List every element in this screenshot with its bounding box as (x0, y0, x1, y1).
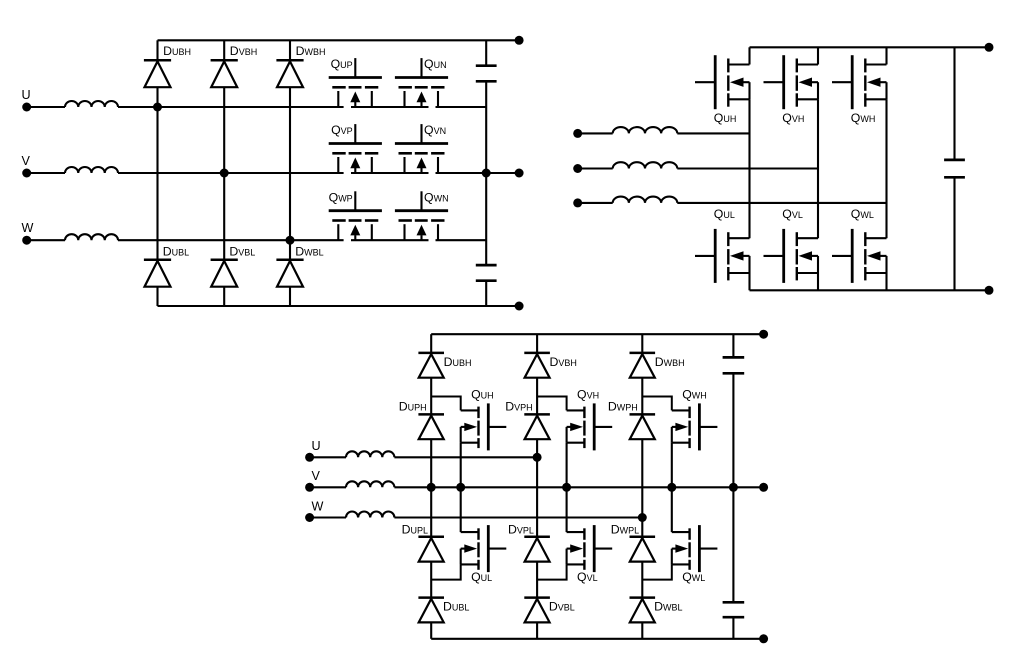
transistor Q_VL (764, 229, 819, 283)
svg-text:DVBH: DVBH (550, 355, 577, 369)
wire Q_WL source branch (block 3) (642, 564, 672, 579)
midpoint terminal dot (block 1) (515, 169, 524, 178)
input terminal W (block 3) (305, 499, 323, 522)
svg-text:DWBL: DWBL (654, 599, 682, 613)
diode leg V: wire top bus to D_VBH (block 1) (223, 40, 225, 60)
wire D_VPH anode to mid row and D_VPL (block 3) (536, 439, 538, 537)
transistor Q_WH (block 3) (672, 403, 718, 450)
wire phase V inductor to half-bridge (block 2) (677, 167, 818, 169)
diode D_VBH (block 3) (524, 353, 550, 378)
svg-text:DVPL: DVPL (508, 523, 534, 537)
svg-text:DVBH: DVBH (230, 44, 257, 58)
svg-text:DUBL: DUBL (163, 244, 189, 258)
negative terminal dot (block 3) (759, 634, 768, 643)
wire top bus to D_WBH (block 3) (641, 334, 643, 353)
transistor Q_WL (block 3) (672, 525, 718, 572)
junction U-phase / diode leg (block 1) (153, 103, 162, 112)
diode leg W: wire top bus to D_WBH (block 1) (289, 40, 291, 60)
wire phase W inductor to half-bridge (block 2) (677, 202, 886, 204)
input terminal dot phase W (block 2) (573, 198, 582, 207)
positive terminal dot (block 3) (759, 330, 768, 339)
wire D_VBH anode down through phase node to D_VBL (block 1) (223, 87, 225, 260)
input terminal W (block 1) (22, 221, 34, 245)
wire W terminal to inductor (block 3) (310, 516, 346, 518)
capacitor C2 (block 1) (476, 265, 497, 281)
transistor Q_WL (832, 229, 887, 283)
wire D_WPL cathode leg to D_WBL (block 3) (641, 561, 643, 597)
wire Q_VL source branch (block 3) (537, 564, 567, 579)
diode D_VPH (block 3) (524, 414, 550, 439)
diode D_UPL (block 3) (418, 537, 444, 562)
input terminal dot phase V (block 2) (573, 164, 582, 173)
svg-text:DWPL: DWPL (611, 523, 639, 537)
svg-text:DUPH: DUPH (399, 399, 427, 413)
inductor LV (block 2) (613, 162, 678, 168)
inductor LW (block 3) (346, 511, 394, 517)
svg-text:DWBH: DWBH (655, 355, 685, 369)
svg-text:DWBH: DWBH (296, 44, 326, 58)
diode D_WBL (block 3) (630, 598, 656, 623)
wire Q_WN drain to capacitor bus (block 1) (436, 239, 487, 241)
wire terminal to inductor phase U (block 2) (578, 132, 613, 134)
svg-text:QVH: QVH (577, 387, 599, 401)
wire top bus to Q_WH drain (block 2) (885, 47, 887, 64)
wire D_WBL anode to bottom bus (block 3) (641, 622, 643, 639)
svg-text:DVPH: DVPH (505, 399, 532, 413)
transistor Q_VL (block 3) (567, 525, 613, 572)
wire Q_UL source branch (block 3) (431, 564, 461, 579)
wire mid row to Q_WL drain (block 3) (671, 487, 673, 532)
block 1: three-phase buck-type rectifier (top-left) (22, 88, 344, 245)
svg-text:V: V (22, 154, 31, 168)
transistor Q_VP (329, 124, 382, 173)
wire Q_VH source to Q_VL drain (block 2) (817, 99, 819, 238)
positive terminal dot (block 1) (515, 36, 524, 45)
diode D_WBL (276, 260, 303, 287)
wire Q_UP source to Q_UN source (block 1) (351, 106, 429, 108)
wire Q_VH source to mid row (block 3) (566, 443, 568, 488)
wire Q_VP source to Q_VN source (block 1) (351, 172, 429, 174)
input terminal V (block 1) (22, 154, 32, 178)
transistor Q_UL (695, 229, 750, 283)
diode D_WBH (block 3) (630, 353, 656, 378)
inductor LV (block 3) (346, 481, 394, 487)
wire mid row to Q_UL drain (block 3) (460, 487, 462, 532)
bottom bus wire (block 1) (158, 305, 520, 307)
wire terminal to inductor phase W (block 2) (578, 202, 613, 204)
capacitor C1 (block 1) (476, 66, 497, 82)
wire top bus to capacitor C3 (block 2) (953, 47, 955, 160)
wire capacitor C2 to bottom bus (block 1) (485, 281, 487, 306)
wire D_UBL anode to bottom bus (block 1) (156, 287, 158, 306)
svg-text:QVN: QVN (424, 123, 446, 137)
svg-text:QWN: QWN (424, 190, 449, 204)
svg-text:QWL: QWL (851, 207, 874, 221)
inductor LW (block 1) (65, 234, 118, 240)
junction mid row / Q_U switch pair (block 3) (456, 483, 465, 492)
wire phase U inductor to half-bridge (block 2) (677, 132, 749, 134)
svg-text:DUBH: DUBH (444, 355, 472, 369)
svg-text:QWL: QWL (682, 570, 705, 584)
wire Q_VL source to bottom bus (block 2) (817, 273, 819, 290)
diode D_VPL (block 3) (524, 537, 550, 562)
wire D_UBH anode down through phase node to D_UBL (block 1) (156, 87, 158, 260)
wire top bus to Q_UH drain (block 2) (748, 47, 750, 64)
bottom bus wire (block 2) (750, 289, 990, 291)
junction mid row / capacitor midpoint (block 3) (729, 483, 738, 492)
diode D_UBH (block 3) (418, 353, 444, 378)
svg-text:W: W (22, 221, 34, 235)
wire Q_WL source to bottom bus (block 2) (885, 273, 887, 290)
wire D_WBH anode down through phase node to D_WBL (block 1) (289, 87, 291, 260)
transistor Q_VN (395, 124, 448, 173)
transistor Q_UN (395, 58, 448, 107)
wire V terminal to inductor (block 1) (27, 172, 65, 174)
diode D_UBH (144, 60, 171, 87)
inductor LU (block 1) (65, 101, 118, 107)
inductor LW (block 2) (613, 197, 678, 203)
diode leg U: wire top bus to D_UBH (block 1) (156, 40, 158, 60)
svg-text:QUP: QUP (331, 57, 353, 71)
junction mid row / U diode leg (block 3) (427, 483, 436, 492)
wire U terminal to inductor (block 3) (310, 456, 346, 458)
transistor Q_UH (695, 55, 750, 109)
inductor LU (block 3) (346, 451, 394, 457)
capacitor C5 (block 3) (723, 602, 745, 617)
wire Q_VN drain to midpoint terminal (block 1) (436, 172, 520, 174)
junction U phase / V diode leg (block 3) (533, 453, 542, 462)
svg-text:DVBL: DVBL (229, 244, 255, 258)
svg-text:DWPH: DWPH (608, 399, 638, 413)
wire D_UPL cathode leg to D_UBL (block 3) (430, 561, 432, 597)
capacitor C4 (block 3) (723, 357, 745, 373)
svg-text:QVL: QVL (782, 207, 803, 221)
inductor LU (block 2) (613, 127, 678, 133)
diode D_UBL (block 3) (418, 598, 444, 623)
diode D_WBH (276, 60, 303, 87)
wire D_WBH anode to D_WPH (block 3) (641, 378, 643, 415)
transistor Q_WP (329, 191, 382, 240)
wire top bus to Q_VH drain (block 2) (817, 47, 819, 64)
svg-text:DUBH: DUBH (163, 44, 191, 58)
wire D_VBL anode to bottom bus (block 1) (223, 287, 225, 306)
negative terminal dot (block 2) (985, 286, 994, 295)
junction W-phase / diode leg (block 1) (286, 236, 295, 245)
wire Q_UL source to bottom bus (block 2) (748, 273, 750, 290)
negative terminal dot (block 1) (515, 302, 524, 311)
transistor Q_WN (395, 191, 448, 240)
wire D_VBH anode to D_VPH (block 3) (536, 378, 538, 415)
svg-text:DUPL: DUPL (402, 523, 428, 537)
wire V inductor to QVP drain (block 1) (118, 172, 344, 174)
diode D_WPL (block 3) (630, 537, 656, 562)
svg-text:U: U (312, 439, 321, 453)
wire top bus to D_UBH (block 3) (430, 334, 432, 353)
wire D_WBL anode to bottom bus (block 1) (289, 287, 291, 306)
wire U phase to V-leg node (block 3) (394, 456, 537, 458)
wire top bus to capacitor C4 (block 3) (732, 334, 734, 357)
wire Q_UH source to Q_UL drain (block 2) (748, 99, 750, 238)
wire W terminal to inductor (block 1) (27, 239, 65, 241)
transistor Q_UP (329, 58, 382, 107)
top bus wire (block 3) (431, 333, 763, 335)
capacitor C3 (block 2) (944, 160, 965, 177)
wire W phase to W-leg node (block 3) (394, 516, 642, 518)
wire Q_VH drain branch (block 3) (537, 397, 567, 411)
wire Q_WH drain branch (block 3) (642, 397, 672, 411)
wire V terminal to inductor (block 3) (310, 486, 346, 488)
diode D_UPH (block 3) (418, 414, 444, 439)
junction V-phase / diode leg (block 1) (220, 169, 229, 178)
wire D_VPL cathode leg to D_VBL (block 3) (536, 561, 538, 597)
top bus wire (block 2) (750, 46, 990, 48)
wire Q_WP source to Q_WN source (block 1) (351, 239, 429, 241)
input terminal V (block 3) (305, 469, 320, 492)
wire U inductor to QUP drain (block 1) (118, 106, 344, 108)
transistor Q_VH (764, 55, 819, 109)
positive terminal dot (block 2) (985, 43, 994, 52)
svg-text:U: U (22, 88, 31, 102)
diode D_VBL (211, 260, 238, 287)
top bus wire (block 1) (158, 39, 520, 41)
wire D_UPH anode to mid row and D_UPL (block 3) (430, 439, 432, 537)
wire capacitor C3 to bottom bus (block 2) (953, 177, 955, 290)
transistor Q_VH (block 3) (567, 403, 613, 450)
input terminal U (block 3) (305, 439, 321, 462)
wire terminal to inductor phase V (block 2) (578, 167, 613, 169)
svg-text:DWBL: DWBL (295, 244, 323, 258)
diode D_WPH (block 3) (630, 414, 656, 439)
wire Q_UN drain to capacitor bus (block 1) (436, 106, 487, 108)
svg-text:QVP: QVP (331, 123, 353, 137)
diode D_VBL (block 3) (524, 598, 550, 623)
wire capacitor C1 to capacitor C2 through phase rows (block 1) (485, 81, 487, 265)
transistor Q_UH (block 3) (461, 403, 507, 450)
wire midpoint row (block 3) (394, 486, 763, 488)
svg-text:QUL: QUL (714, 207, 735, 221)
svg-text:QUH: QUH (714, 111, 737, 125)
transistor Q_WH (832, 55, 887, 109)
svg-text:QVL: QVL (577, 570, 598, 584)
wire capacitor C5 to bottom bus (block 3) (732, 617, 734, 639)
svg-text:QWP: QWP (329, 190, 353, 204)
bottom bus wire (block 3) (431, 638, 763, 640)
junction mid row / Q_V switch pair (block 3) (562, 483, 571, 492)
junction V-row / capacitor midpoint (block 1) (482, 169, 491, 178)
wire Q_WH source to Q_WL drain (block 2) (885, 99, 887, 238)
wire Q_WH source to mid row (block 3) (671, 443, 673, 488)
svg-text:QWH: QWH (682, 387, 707, 401)
wire U terminal to inductor (block 1) (27, 106, 65, 108)
svg-text:QUL: QUL (471, 570, 492, 584)
inductor LV (block 1) (65, 167, 118, 173)
svg-text:QUN: QUN (424, 57, 447, 71)
wire top bus to capacitor C1 (block 1) (485, 40, 487, 65)
junction mid row / Q_W switch pair (block 3) (667, 483, 676, 492)
svg-text:DUBL: DUBL (443, 599, 469, 613)
diode D_VBH (211, 60, 238, 87)
wire D_UBH anode to D_UPH (block 3) (430, 378, 432, 415)
wire Q_UH drain branch (block 3) (431, 397, 461, 411)
diode D_UBL (144, 260, 171, 287)
input terminal dot phase U (block 2) (573, 129, 582, 138)
svg-text:V: V (312, 469, 321, 483)
wire D_UBL anode to bottom bus (block 3) (430, 622, 432, 639)
wire top bus to D_VBH (block 3) (536, 334, 538, 353)
wire D_WPH anode to mid row and D_WPL (block 3) (641, 439, 643, 537)
svg-text:QVH: QVH (782, 111, 804, 125)
wire mid row to capacitor C5 (block 3) (732, 487, 734, 602)
junction W phase / W diode leg (block 3) (638, 513, 647, 522)
wire D_VBL anode to bottom bus (block 3) (536, 622, 538, 639)
svg-text:QWH: QWH (851, 111, 876, 125)
svg-text:W: W (312, 499, 324, 513)
wire capacitor C4 to mid row (block 3) (732, 373, 734, 487)
svg-text:DVBL: DVBL (549, 599, 575, 613)
transistor Q_UL (block 3) (461, 525, 507, 572)
midpoint terminal dot (block 3) (759, 483, 768, 492)
input terminal U (block 1) (22, 88, 32, 112)
wire mid row to Q_VL drain (block 3) (566, 487, 568, 532)
wire Q_UH source to mid row (block 3) (460, 443, 462, 488)
wire W inductor to QWP drain (block 1) (118, 239, 344, 241)
svg-text:QUH: QUH (471, 387, 494, 401)
